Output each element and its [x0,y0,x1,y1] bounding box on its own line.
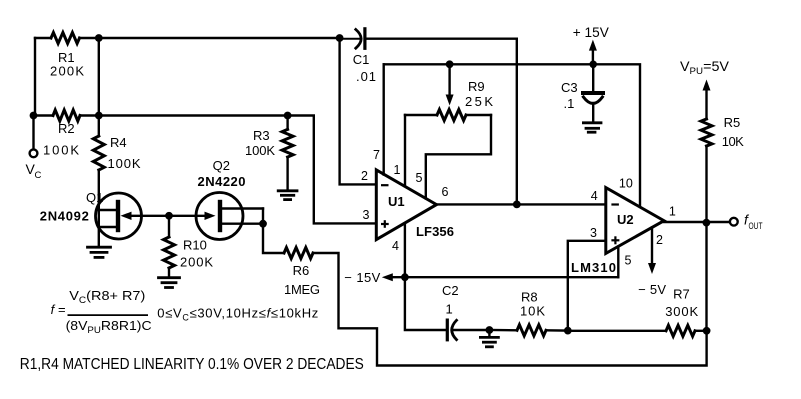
capacitor C2 [446,320,449,340]
svg-text:10K: 10K [520,304,545,319]
svg-text:f: f [51,302,56,317]
node Q2 drain junction [259,220,267,228]
capacitor C3 [592,64,594,91]
svg-text:C2: C2 [442,283,459,298]
svg-text:+ 15V: + 15V [573,24,610,40]
svg-text:1: 1 [394,163,401,177]
pin numbers U2 [590,177,676,268]
ground (R3) [278,191,297,200]
svg-text:C: C [35,170,42,181]
svg-text:7: 7 [373,148,380,162]
wire U2 output [664,221,730,223]
svg-text:.1: .1 [564,96,575,111]
svg-text:R10: R10 [183,238,207,253]
wire pin3 riser [568,241,606,331]
resistor R8 [517,325,546,336]
node R8/pin3 junction [564,327,572,335]
svg-text:R7: R7 [673,287,690,302]
svg-text:OUT: OUT [749,221,763,232]
svg-text:LM310: LM310 [571,260,616,275]
wire R6 to bottom feedback rail [313,253,707,366]
resistor R3 [286,116,288,130]
svg-text:R8: R8 [521,290,538,305]
svg-text:100K: 100K [108,156,141,171]
svg-text:4: 4 [591,189,598,203]
wire Q1 gate with arrow [130,215,169,217]
resistor R9 [405,114,437,116]
svg-text:2N4220: 2N4220 [198,174,246,189]
wire V_C terminal stem [32,116,34,150]
svg-text:Q1: Q1 [86,190,103,205]
wire U2 pin2 arrow to -5V [651,228,653,265]
U2 inverting input symbol [611,203,619,205]
svg-text:=: = [58,302,66,317]
wire R9 right end to U1 pin5 [426,115,491,198]
wire R8 junction to R7 [568,330,666,332]
wire R10 stem [168,216,170,237]
svg-text:4: 4 [392,239,399,253]
terminal V_C [30,149,38,157]
op-amp U2 LM310 [606,188,664,254]
ground (C3) [583,123,601,132]
wire gate junction to Q2 with arrow [169,215,205,217]
transistor Q2 2N4220 [196,193,243,240]
node C1 left junction [336,34,344,42]
wire R5 to output junction to R7 [705,146,707,331]
wire left input vertical [34,38,36,116]
svg-text:1: 1 [446,302,453,317]
svg-text:R1,R4 MATCHED LINEARITY 0.1%: R1,R4 MATCHED LINEARITY 0.1% OVER 2 DECA… [20,356,364,373]
svg-text:Q2: Q2 [213,158,230,173]
wire R10 to ground [168,268,170,277]
resistor R2 [53,110,80,121]
svg-text:− 15V: − 15V [344,270,380,285]
node R7 junction [703,327,711,335]
svg-text:1: 1 [669,205,676,219]
U1 non-inverting input symbol [381,223,389,225]
wire -15V rail with arrow [392,276,618,278]
capacitor C1 [356,30,361,49]
resistor R6 [284,248,313,259]
ground (C2) [488,330,490,336]
svg-text:0≤VC≤30V,10Hz≤f≤10kHz: 0≤VC≤30V,10Hz≤f≤10kHz [157,306,318,323]
transistor Q1 2N4092 [96,193,142,239]
svg-text:− 5V: − 5V [638,282,666,297]
node +15V/C3 junction [589,61,597,69]
svg-text:VPU=5V: VPU=5V [680,58,730,77]
svg-text:.01: .01 [356,69,376,84]
svg-text:U2: U2 [617,212,634,227]
wire R2 row to pin3 corner [80,116,376,224]
wire +15V rail to U2 pin10 [384,64,640,207]
svg-text:5: 5 [416,171,423,185]
supply V_PU arrow [705,89,707,119]
node C2/ground junction [486,326,494,334]
svg-text:R9: R9 [468,79,485,94]
svg-text:R4: R4 [110,135,127,150]
resistor R4 [93,136,104,170]
svg-text:300K: 300K [665,304,698,319]
svg-text:10: 10 [619,177,633,191]
svg-text:VC(R8+ R7): VC(R8+ R7) [69,288,145,305]
wire R9 left end to U1 pin1 [404,115,406,186]
wire U1 output [437,203,606,205]
resistor R1 [51,33,80,44]
node R9 wiper junction [446,60,454,68]
supply +15V arrow [592,49,594,64]
svg-text:2N4092: 2N4092 [40,209,89,224]
terminal f_OUT [730,218,738,226]
wire R7 to R5 line [695,330,707,332]
wire top rail R1 to C1 [80,37,340,39]
svg-text:5: 5 [625,254,632,268]
wire U1 pin7 to +15V rail [383,64,385,174]
svg-text:U1: U1 [388,194,405,209]
resistor R10 [164,237,175,268]
node -15V junction [401,273,409,281]
svg-text:200K: 200K [50,64,84,79]
node output/C1 junction [513,201,521,209]
wire R4 branch vertical [98,38,100,136]
svg-text:1MEG: 1MEG [284,282,320,297]
pin numbers U1 [361,148,449,253]
svg-text:10K: 10K [722,134,744,149]
svg-text:R2: R2 [58,121,75,136]
wire U1 pin4 down [405,223,447,330]
wire R4 to Q1 source and ground [98,170,100,246]
wire top rail left (V_C node to C1) [35,37,51,39]
svg-text:200K: 200K [180,255,213,270]
ground (Q1 source) [88,247,111,257]
svg-text:R3: R3 [253,128,270,143]
wire U2 pin5 drop [617,247,619,278]
svg-text:3: 3 [363,208,370,222]
wire pin2 from C1 node [340,38,377,184]
svg-text:100K: 100K [245,143,275,158]
resistor R5 [701,119,712,146]
svg-text:3: 3 [590,226,597,240]
op-amp U1 LF356 [376,170,436,240]
wire C1 right to output node [516,39,518,205]
U1 inverting input symbol [381,184,389,186]
wire R8 to junction [546,329,568,332]
svg-text:R6: R6 [293,263,310,278]
node R2 row junction [95,112,103,120]
node V_C junction [30,112,38,120]
node R3 top junction [284,112,292,120]
svg-text:6: 6 [442,185,449,199]
potentiometer R9 wiper arrow [448,64,450,96]
resistor R7 [666,325,695,336]
svg-text:100K: 100K [43,143,79,158]
svg-text:C1: C1 [353,52,370,67]
svg-text:2: 2 [656,233,663,247]
svg-text:25K: 25K [465,94,493,109]
svg-text:R5: R5 [724,115,741,130]
svg-text:LF356: LF356 [416,224,454,239]
svg-text:C3: C3 [561,80,578,95]
U2 non-inverting input symbol [611,239,619,241]
wire ground to R8 [489,329,517,332]
ground (R10) [159,278,180,288]
node gate junction [165,212,173,220]
svg-text:2: 2 [361,169,368,183]
svg-text:(8VPUR8R1)C: (8VPUR8R1)C [66,318,152,335]
node output/R5 junction [703,219,711,227]
wire Q2 junction down to R6 [263,224,284,253]
node R1 top junction [95,34,103,42]
wire R2 row left [35,114,53,116]
